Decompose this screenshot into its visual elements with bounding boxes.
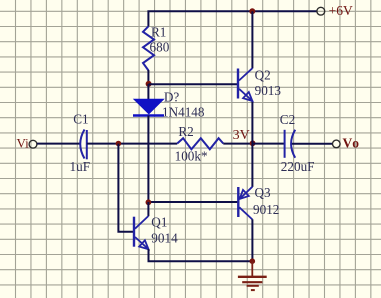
- transistor Q3 base bar: [237, 187, 239, 217]
- node junction at ground: [250, 258, 256, 264]
- ground symbol bar 3: [247, 285, 259, 287]
- wire R2 to node D: [223, 143, 252, 145]
- wire C2 to Vo: [292, 143, 333, 145]
- ground symbol bar 1: [238, 276, 267, 278]
- svg-text:Vi: Vi: [17, 136, 30, 151]
- wire Q2 collector vertical: [251, 11, 253, 68]
- wire R1 bottom to node A: [147, 70, 149, 85]
- svg-text:D?: D?: [164, 90, 180, 105]
- svg-text:3V: 3V: [233, 128, 250, 143]
- wire top rail from R1 top to +6V terminal: [148, 11, 317, 26]
- transistor Q3 emitter diagonal: [240, 187, 253, 199]
- port Vi circle: [29, 140, 37, 148]
- capacitor C2 curved plate: [291, 130, 295, 158]
- wire junction down and to Q1 base: [118, 144, 133, 232]
- resistor R1 body: [143, 26, 154, 70]
- svg-text:R1: R1: [151, 25, 166, 40]
- wire node D to C2: [253, 143, 285, 145]
- wire Q1 emitter down and bottom rail to ground node: [149, 249, 253, 261]
- power port +6V circle: [317, 7, 325, 15]
- transistor Q2 base bar: [237, 69, 239, 99]
- svg-text:9014: 9014: [151, 231, 178, 246]
- ground symbol stem: [251, 261, 253, 276]
- resistor R2 body: [177, 138, 223, 149]
- node junction at top rail and Q2 collector: [249, 8, 255, 14]
- svg-text:Q2: Q2: [255, 68, 271, 83]
- svg-text:R2: R2: [178, 124, 193, 139]
- wire node D up to Q2 emitter: [251, 101, 253, 144]
- svg-text:9012: 9012: [253, 202, 279, 217]
- node C junction dot: [146, 199, 152, 205]
- svg-text:1N4148: 1N4148: [162, 105, 205, 120]
- node junction at Vi line and Q1 base branch: [116, 141, 122, 147]
- wire node A to Q2 base: [149, 83, 237, 85]
- svg-text:1uF: 1uF: [70, 159, 91, 174]
- capacitor C1 curved plate: [80, 130, 84, 159]
- svg-text:Q1: Q1: [151, 214, 167, 229]
- wire node C down to Q1 collector: [147, 202, 149, 216]
- capacitor C2 straight plate: [284, 130, 286, 158]
- wire C1 to R2: [87, 143, 177, 145]
- transistor Q2 emitter arrow: [243, 92, 252, 101]
- transistor Q1 base bar: [133, 217, 135, 247]
- svg-text:Vo: Vo: [343, 136, 361, 151]
- wire node D down to Q3 emitter: [251, 144, 253, 187]
- ground symbol bar 4: [251, 289, 255, 291]
- transistor Q2 emitter diagonal: [239, 89, 252, 101]
- capacitor C1 straight plate: [86, 130, 88, 159]
- transistor Q3 collector diagonal: [239, 207, 252, 219]
- wire node C to Q3 base: [148, 201, 237, 203]
- svg-text:9013: 9013: [255, 83, 282, 98]
- transistor Q3 emitter arrow (PNP, points to base): [240, 190, 249, 199]
- port Vo circle: [333, 140, 341, 148]
- transistor Q1 emitter diagonal: [135, 237, 149, 249]
- svg-text:Q3: Q3: [255, 185, 272, 200]
- transistor Q2 collector diagonal: [239, 68, 252, 80]
- svg-text:C2: C2: [280, 112, 295, 127]
- wire node A to diode anode: [147, 84, 149, 100]
- wire diode cathode to node C: [147, 116, 149, 203]
- node D junction dot (3V output node): [250, 140, 256, 146]
- transistor Q1 collector diagonal: [135, 216, 148, 229]
- diode D? triangle: [134, 99, 164, 114]
- node A junction dot: [146, 81, 152, 87]
- svg-text:100k*: 100k*: [175, 149, 208, 164]
- transistor Q1 emitter arrow: [139, 240, 148, 249]
- wire Q3 collector vertical down: [251, 219, 253, 261]
- wire Vi to C1: [37, 143, 80, 145]
- ground symbol bar 2: [242, 281, 262, 283]
- svg-text:220uF: 220uF: [281, 159, 315, 174]
- svg-text:+6V: +6V: [329, 3, 353, 18]
- diode D? cathode bar: [133, 114, 164, 117]
- svg-text:680: 680: [150, 40, 170, 55]
- svg-text:C1: C1: [73, 112, 88, 127]
